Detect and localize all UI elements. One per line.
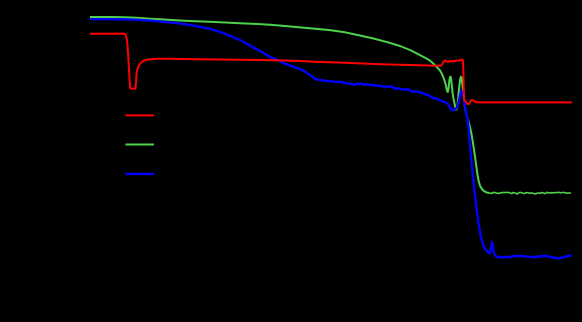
legend green line: [126, 144, 155, 146]
blue curve: [90, 19, 572, 258]
green curve: [90, 17, 489, 193]
legend blue line: [126, 173, 155, 175]
green curve flat tail: [489, 192, 572, 194]
red curve: [90, 34, 572, 105]
legend red line: [126, 114, 155, 116]
